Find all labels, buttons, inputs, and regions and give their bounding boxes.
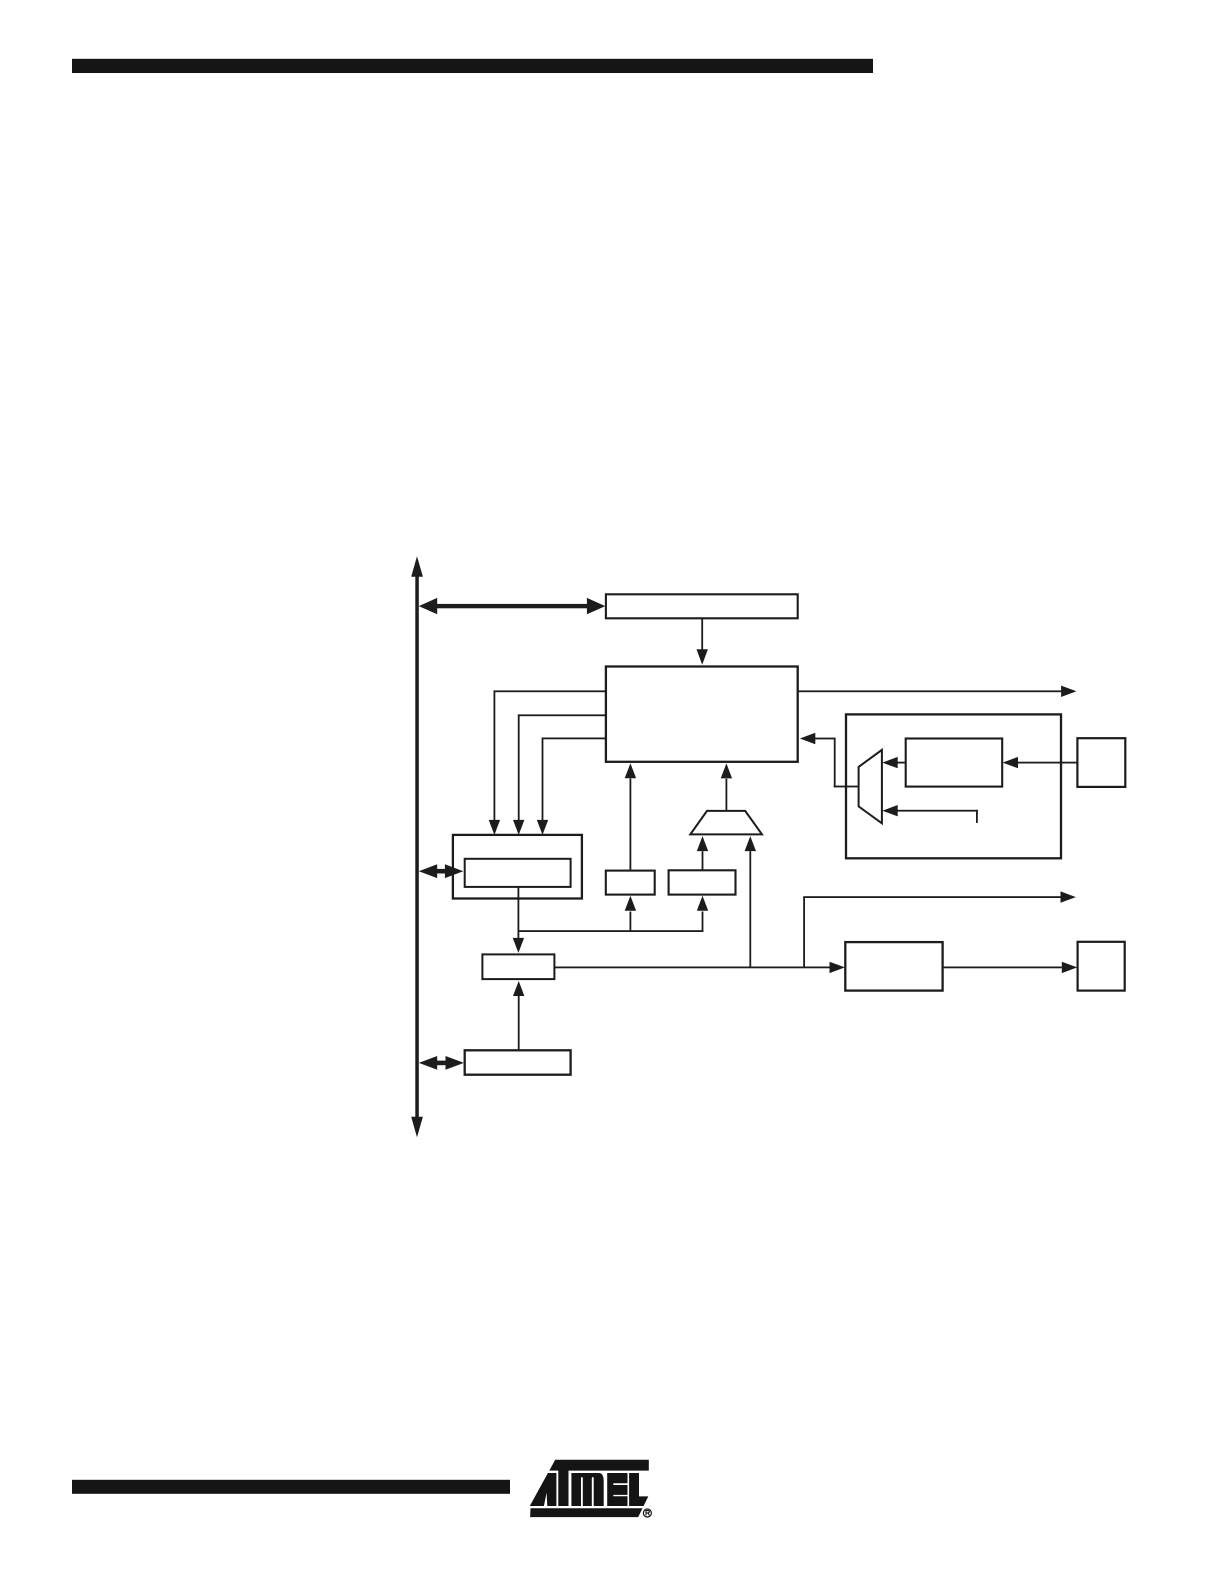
wire: TCCRn down to control logic (697, 618, 708, 664)
DATA BUS vertical line (411, 556, 423, 1137)
logo letter E (607, 1473, 627, 1506)
logo letter m (571, 1473, 603, 1506)
wire: bus to OCRn short double arrow (419, 1056, 464, 1070)
footer rule bar (72, 1480, 510, 1494)
logo top bar + A apex + T (549, 1460, 649, 1506)
pin OCn (1078, 942, 1125, 991)
block control logic (606, 667, 798, 762)
block OCRn register (465, 1050, 571, 1074)
logo bottom bar (530, 1508, 642, 1517)
wire direction: control logic left to TCNT (line b) (513, 714, 606, 835)
wire: Tn pin to synchronization (1003, 757, 1078, 768)
wire: bus to TCNTn short double arrow (419, 864, 464, 878)
block comparator OCRn (482, 954, 554, 979)
block count (606, 871, 655, 895)
wire clk_Tn: second mux input with stub (882, 805, 978, 823)
block waveform generation (845, 942, 942, 991)
wire: OCRn register up to comparator (513, 981, 524, 1050)
logo registered trademark symbol (643, 1509, 651, 1517)
block timer/counter outer box (453, 835, 582, 899)
wire: comparator output to waveform generator (554, 962, 845, 973)
wire: TCNTn down to comparator with branch (513, 887, 704, 953)
pin Tn (1077, 738, 1125, 787)
block TCNTn register (inner box) (465, 859, 571, 887)
clock select mux (trapezoid) (690, 811, 762, 835)
Atmel logo (530, 1460, 649, 1517)
wire: branch up into bottom block (697, 896, 708, 931)
wire: waveform generation to OCn pin (943, 962, 1078, 973)
block TCCRn control register (606, 594, 798, 618)
edge select mux (trapezoid pointing left) (859, 750, 882, 823)
wire clear: control logic left to TCNT (line a) (489, 690, 606, 835)
block synchronization (inner box) (906, 739, 1003, 787)
wire clk_Tn: control logic left to TCNT (line c) (537, 738, 606, 835)
logo letter L (629, 1473, 648, 1506)
block prescaler / clock unit outer box (846, 714, 1061, 858)
wire: clear block up to clk mux (697, 836, 708, 870)
wire: bus to TCCRn thick double arrow (419, 598, 606, 614)
wire TOVn: control logic to interrupt request (right arrow) (798, 686, 1077, 697)
wire OCFn: branch up and right to interrupt (arrow) (803, 891, 1076, 967)
logo letter A body with notch (530, 1473, 557, 1506)
wire: branch up into count block (625, 896, 636, 931)
wire: mux up to control logic (721, 763, 732, 811)
header rule bar (72, 59, 873, 73)
wire: mux output to control logic clk input (800, 733, 859, 788)
wire: synchronization to edge select mux (882, 757, 905, 768)
wire: compare match line up to mux (745, 836, 756, 967)
block clear (669, 870, 736, 894)
wire: count block up to control logic (625, 763, 636, 870)
